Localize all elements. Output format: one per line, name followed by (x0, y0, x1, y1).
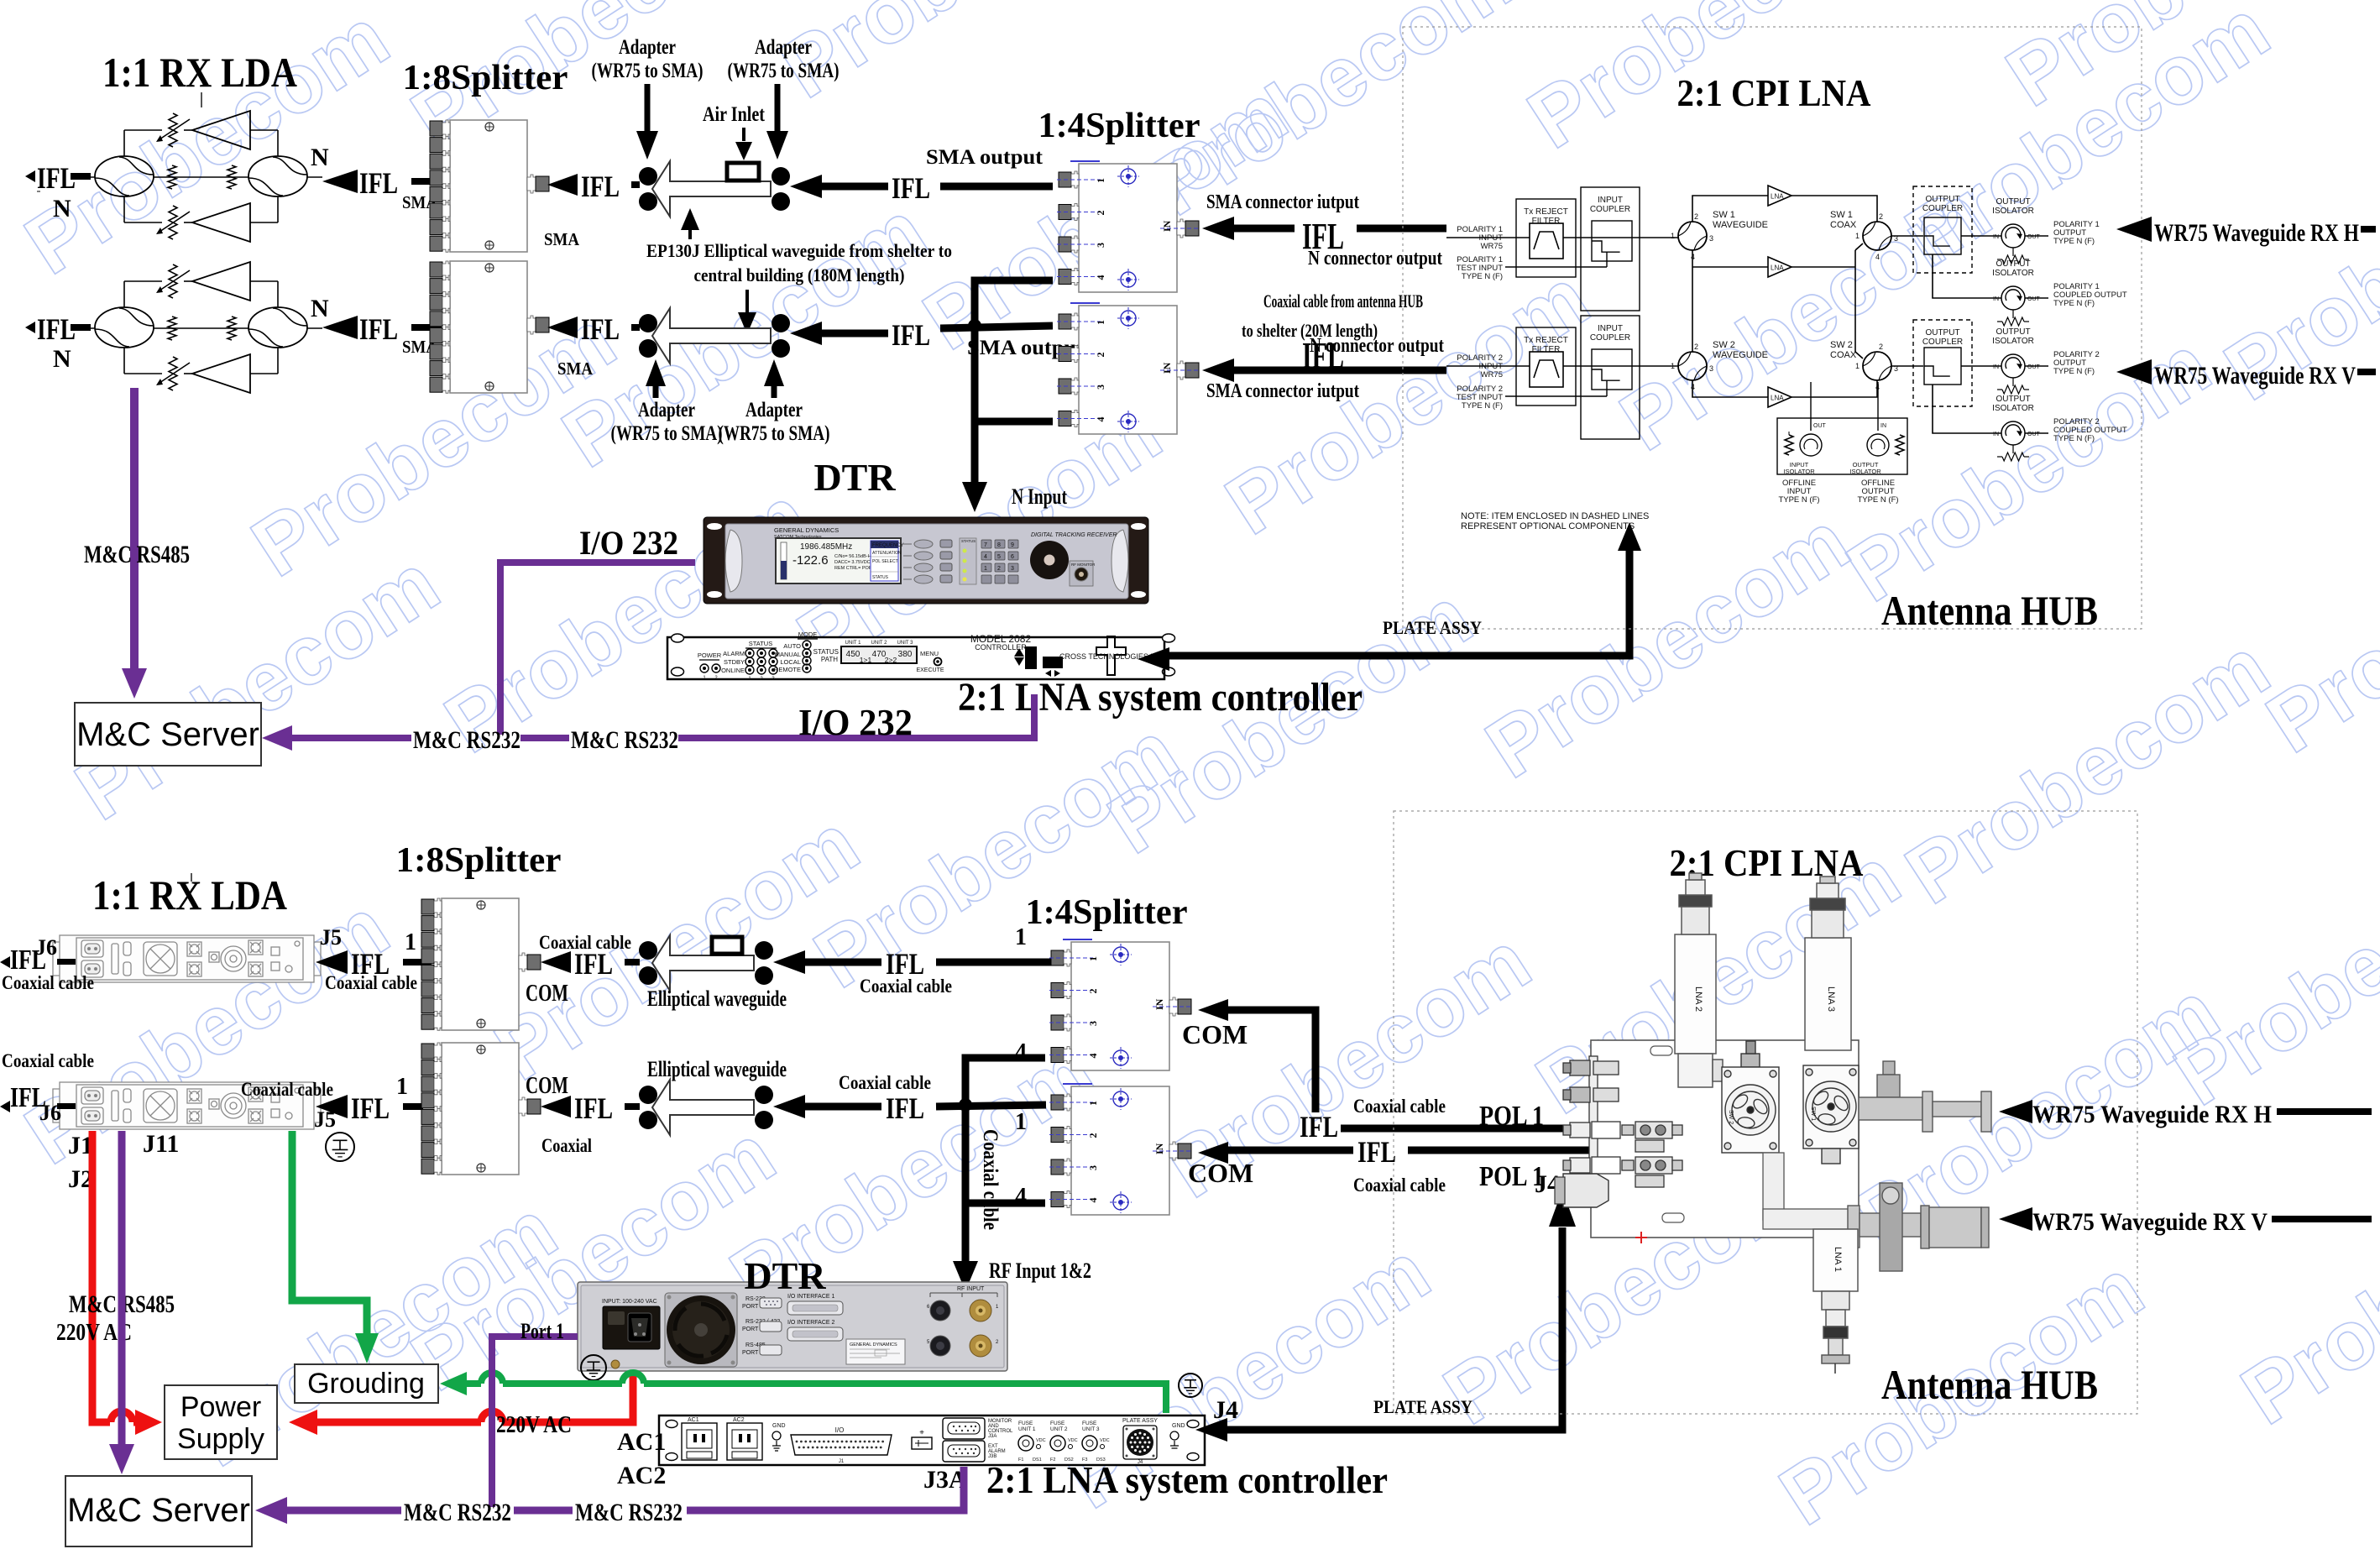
svg-text:4: 4 (984, 554, 987, 560)
svg-text:ONLINE: ONLINE (721, 667, 745, 674)
svg-text:ISOLATOR: ISOLATOR (1992, 269, 2034, 278)
svg-text:1:8Splitter: 1:8Splitter (396, 841, 562, 880)
svg-text:Coaxial cable: Coaxial cable (2, 1050, 94, 1071)
svg-text:M&C Server: M&C Server (67, 1492, 250, 1529)
svg-text:Coaxial cable: Coaxial cable (839, 1072, 931, 1093)
wire IFL into bottom splitter1 right port (541, 951, 571, 973)
wire SW1coax to output coupler1 (1891, 235, 1923, 237)
svg-text:MANUAL: MANUAL (775, 651, 801, 658)
svg-text:M&C RS232: M&C RS232 (575, 1499, 683, 1526)
LNA 3 cylinder (1805, 877, 1851, 1050)
svg-text:WR75 Waveguide RX H: WR75 Waveguide RX H (2032, 1101, 2272, 1128)
svg-text:TYPE N (F): TYPE N (F) (2053, 299, 2095, 308)
svg-text:PLATE ASSY: PLATE ASSY (1122, 1418, 1158, 1424)
svg-text:1: 1 (405, 929, 416, 955)
svg-text:WR75 Waveguide RX V: WR75 Waveguide RX V (2154, 362, 2356, 390)
svg-text:7: 7 (984, 542, 987, 548)
svg-text:1: 1 (1855, 362, 1860, 370)
wire splitter2 port4 to bus (975, 418, 1053, 426)
svg-text:UNIT 3: UNIT 3 (1082, 1426, 1100, 1432)
svg-text:ALARM: ALARM (723, 650, 745, 657)
2:1 LNA system controller front panel (667, 631, 1175, 682)
svg-text:SW 2: SW 2 (1713, 340, 1735, 350)
wire LNA2 out to SW1coax/SW2coax (1792, 266, 1855, 268)
svg-text:SW 1: SW 1 (1830, 210, 1853, 220)
svg-text:IFL: IFL (1300, 1110, 1338, 1143)
offline input/output isolator box (1777, 418, 1907, 474)
air inlet square bottom (712, 937, 742, 954)
svg-text:VDC: VDC (1100, 1438, 1110, 1443)
switch SW1 assembly (1803, 1065, 1859, 1164)
wire IFL into splitter2 IN (from CPI LNA) (1202, 358, 1234, 382)
svg-text:COAX: COAX (1830, 350, 1857, 360)
svg-text:WR75: WR75 (1481, 370, 1503, 379)
svg-text:RF INPUT: RF INPUT (957, 1286, 985, 1292)
svg-text:POL SELECT: POL SELECT (872, 559, 898, 564)
svg-text:FUSE: FUSE (1050, 1421, 1065, 1426)
output isolator 1 (2001, 224, 2025, 248)
svg-text:IFL: IFL (1357, 1135, 1396, 1169)
svg-text:OUTPUT: OUTPUT (1996, 197, 2030, 207)
svg-text:Adapter: Adapter (755, 36, 812, 59)
svg-text:3: 3 (1709, 364, 1713, 373)
svg-text:LOCAL: LOCAL (780, 658, 801, 666)
svg-text:1: 1 (984, 566, 987, 572)
svg-text:Coaxial cable: Coaxial cable (1353, 1175, 1446, 1196)
svg-text:COUPLER: COUPLER (1922, 338, 1963, 347)
output isolator 2 (coupled) (2001, 286, 2025, 310)
svg-text:N Input: N Input (1012, 484, 1067, 509)
svg-text:STATUS: STATUS (749, 640, 772, 647)
svg-text:2:1 LNA system controller: 2:1 LNA system controller (986, 1458, 1388, 1501)
junction dot at bus x row V (968, 319, 981, 332)
wire WR75 Waveguide RX V (bottom) (1999, 1207, 2032, 1231)
svg-text:WR75 Waveguide RX H: WR75 Waveguide RX H (2154, 219, 2359, 247)
wire polarity2 main line (1446, 365, 1679, 367)
wire IFL waveguide1 to 1:4 splitter1 (bottom) (773, 950, 805, 974)
LNA 3 amplifier (1768, 387, 1792, 407)
svg-text:IFL: IFL (359, 312, 398, 346)
svg-text:1: 1 (1015, 924, 1027, 950)
svg-text:Tx REJECT: Tx REJECT (1524, 336, 1568, 345)
wire coupled output 2 (1933, 385, 2001, 433)
svg-text:CONTROLLER: CONTROLLER (975, 643, 1027, 652)
svg-text:OUT: OUT (2027, 432, 2041, 437)
svg-text:ISOLATOR: ISOLATOR (1783, 468, 1815, 475)
elliptical waveguide (bottom row 2) (639, 1086, 657, 1104)
svg-text:GND: GND (1172, 1423, 1185, 1429)
svg-text:IFL: IFL (37, 161, 76, 195)
svg-text:IFL: IFL (37, 312, 76, 346)
svg-text:Supply: Supply (177, 1423, 264, 1455)
svg-text:INPUT: INPUT (1598, 324, 1623, 333)
svg-text:(WR75 to SMA): (WR75 to SMA) (719, 422, 830, 445)
svg-text:SW 1: SW 1 (1713, 210, 1735, 220)
wire IFL into bottom splitter2 right port (541, 1096, 571, 1117)
svg-text:Adapter: Adapter (745, 399, 803, 421)
svg-text:380: 380 (898, 650, 913, 659)
svg-text:2: 2 (997, 566, 1001, 572)
svg-text:MENU: MENU (920, 650, 939, 657)
svg-text:⎈: ⎈ (919, 1430, 924, 1436)
svg-text:1: 1 (1855, 232, 1860, 240)
svg-text:Tx REJECT: Tx REJECT (1524, 207, 1568, 217)
svg-text:Antenna HUB: Antenna HUB (1881, 587, 2098, 634)
wire COM1: splitter1 IN to CPI (bottom) (1198, 999, 1228, 1021)
svg-text:Coaxial cable: Coaxial cable (860, 976, 952, 997)
1:4 splitter unit 2 (top half) (1079, 306, 1177, 434)
J4 connector on plate (1563, 1174, 1608, 1207)
vertical duct SW2 to RX V arm (1763, 1153, 1860, 1229)
svg-text:OUTPUT: OUTPUT (1996, 395, 2030, 404)
svg-text:UNIT 2: UNIT 2 (871, 641, 888, 646)
svg-text:OUT: OUT (1813, 423, 1827, 429)
svg-text:DIGITAL TRACKING RECEIVER: DIGITAL TRACKING RECEIVER (1031, 532, 1117, 538)
svg-text:3: 3 (1709, 234, 1713, 243)
svg-text:1: 1 (1671, 362, 1675, 370)
svg-text:N: N (311, 295, 329, 322)
svg-text:1: 1 (396, 1074, 408, 1100)
svg-text:Adapter: Adapter (638, 399, 695, 421)
svg-text:4: 4 (1095, 275, 1106, 280)
svg-text:I/O INTERFACE 2: I/O INTERFACE 2 (787, 1320, 835, 1326)
svg-text:LNA 3: LNA 3 (1826, 986, 1836, 1012)
svg-text:J5: J5 (320, 925, 342, 950)
svg-text:1986.485MHz: 1986.485MHz (800, 542, 852, 552)
junction dot coax bus row2 (959, 1098, 972, 1112)
svg-text:IFL: IFL (892, 171, 930, 205)
svg-text:3: 3 (1087, 1021, 1099, 1026)
LNA plate assembly (1591, 1040, 1859, 1238)
LNA 1 cylinder (1813, 1229, 1858, 1374)
wire splitter1 port4 to N-input bus (975, 280, 1053, 487)
svg-text:M&C RS232: M&C RS232 (413, 726, 520, 754)
svg-text:SW 2: SW 2 (1830, 340, 1853, 350)
svg-text:N: N (53, 195, 71, 222)
DTR rear panel (578, 1282, 1007, 1371)
left edge connectors of plate (1563, 1056, 1620, 1191)
svg-text:RF Input 1&2: RF Input 1&2 (989, 1259, 1091, 1283)
svg-text:Coaxial cable: Coaxial cable (241, 1079, 333, 1100)
svg-text:J11: J11 (143, 1130, 179, 1158)
svg-text:TYPE N (F): TYPE N (F) (2053, 237, 2095, 246)
IFL port left (schematic H) (25, 170, 35, 182)
svg-text:INPUT: 100-240 VAC: INPUT: 100-240 VAC (602, 1299, 657, 1305)
svg-text:SMA connector iutput: SMA connector iutput (1206, 380, 1359, 402)
wire bottom splitter1 port4 to coax bus (965, 1058, 1045, 1264)
wire SW2wg to LNA3 to SW2coax (1692, 380, 1768, 397)
svg-text:REPRESENT OPTIONAL COMPONENTS: REPRESENT OPTIONAL COMPONENTS (1461, 521, 1635, 531)
wire IFL unit2 to splitter2 (bottom) (316, 1095, 348, 1118)
svg-text:GENERAL DYNAMICS: GENERAL DYNAMICS (774, 526, 839, 534)
svg-text:AC2: AC2 (617, 1462, 666, 1489)
1:8 splitter unit 1 (bottom) (442, 898, 519, 1030)
IFL port left (schematic V) (25, 322, 35, 333)
svg-text:(WR75 to SMA): (WR75 to SMA) (611, 422, 723, 445)
svg-text:Antenna HUB: Antenna HUB (1881, 1361, 2098, 1408)
svg-text:PATH: PATH (821, 656, 838, 663)
svg-text:Elliptical waveguide: Elliptical waveguide (647, 1057, 787, 1081)
wire PLATE ASSY to controller (top half) (1138, 647, 1169, 671)
switch SW2 waveguide (1678, 352, 1707, 380)
1:4 splitter unit 2 (bottom) (1071, 1086, 1169, 1215)
svg-text:IFL: IFL (351, 1091, 390, 1125)
wire IFL unit1 to splitter1 (bottom) (316, 950, 348, 974)
svg-text:IN: IN (1993, 234, 1999, 240)
svg-text:N: N (53, 345, 71, 373)
svg-text:SMA: SMA (557, 358, 594, 379)
svg-text:4: 4 (1875, 253, 1880, 261)
svg-text:NOTE: ITEM ENCLOSED IN DASHED: NOTE: ITEM ENCLOSED IN DASHED LINES (1461, 511, 1649, 521)
svg-text:LNA 1: LNA 1 (1833, 1247, 1843, 1272)
svg-text:2: 2 (1087, 1133, 1099, 1138)
leader arrow adapter2 (775, 84, 781, 134)
svg-text:M&C Server: M&C Server (76, 716, 259, 753)
wire IFL from LDA V to splitter2 (322, 316, 358, 339)
svg-text:INPUT: INPUT (1598, 196, 1623, 205)
1:1 RX LDA redundancy switch schematic (path V) (80, 262, 322, 393)
Grounding box (295, 1364, 438, 1403)
leader arrow adapter1 (645, 84, 651, 134)
svg-text:3: 3 (1087, 1165, 1099, 1170)
svg-text:2:1 CPI LNA: 2:1 CPI LNA (1677, 71, 1871, 114)
svg-text:COM: COM (526, 980, 568, 1007)
svg-text:8: 8 (997, 542, 1001, 548)
wire IFL waveguide2 to 1:4 splitter2 (bottom) (773, 1095, 805, 1118)
offline output isolator (1867, 434, 1889, 456)
LNA 2 cylinder (1675, 873, 1723, 1087)
wire J4 plate assy (bottom) (1195, 1418, 1227, 1442)
wire WR75 Waveguide RX H (top) (2116, 217, 2152, 242)
wire SW1wg to LNA1 to SW1coax (1692, 196, 1768, 222)
svg-text:POL 1: POL 1 (1479, 1101, 1544, 1132)
svg-text:I/O 232: I/O 232 (579, 524, 678, 562)
svg-text:IFL: IFL (886, 1091, 924, 1125)
svg-text:J6: J6 (39, 1101, 61, 1125)
svg-text:Coaxial cable from antenna HUB: Coaxial cable from antenna HUB (1263, 290, 1423, 311)
Power Supply box (165, 1385, 277, 1459)
ground symbol DTR rear (581, 1355, 606, 1380)
wire 220V AC from DTR (red) (289, 1410, 317, 1435)
svg-text:EP130J Elliptical waveguide fr: EP130J Elliptical waveguide from shelter… (646, 240, 952, 261)
svg-text:VDC: VDC (1036, 1438, 1046, 1443)
svg-text:450: 450 (846, 650, 860, 659)
svg-text:3: 3 (1095, 243, 1106, 248)
svg-text:Power: Power (180, 1391, 261, 1423)
svg-text:J1: J1 (839, 1459, 845, 1464)
svg-text:GENERAL DYNAMICS: GENERAL DYNAMICS (850, 1342, 897, 1348)
svg-text:REMOTE: REMOTE (774, 666, 801, 673)
svg-text:2: 2 (1087, 989, 1099, 994)
ground symbol near controller (1179, 1374, 1202, 1397)
waveguide arm RX H (1859, 1061, 1991, 1132)
1:8 splitter unit 2 (bottom) (442, 1043, 519, 1175)
svg-text:FUSE: FUSE (1018, 1421, 1033, 1426)
Antenna HUB dashed boundary (top) (1403, 27, 2142, 629)
svg-text:C/No= 56.15dB-Hz: C/No= 56.15dB-Hz (834, 554, 874, 559)
wire Port 1 (purple bottom) (492, 1337, 578, 1507)
svg-text:IFL: IFL (1302, 335, 1344, 376)
output isolator 3 (2001, 354, 2025, 378)
svg-text:UNIT 3: UNIT 3 (897, 641, 914, 646)
svg-text:WR75: WR75 (1481, 242, 1503, 251)
offline input isolator (1800, 434, 1822, 456)
svg-text:(WR75 to SMA): (WR75 to SMA) (728, 60, 840, 82)
waveguide arm RX V (1848, 1183, 1989, 1271)
svg-text:LNA: LNA (1771, 264, 1784, 272)
svg-text:AC2: AC2 (733, 1417, 745, 1423)
svg-text:UNIT 1: UNIT 1 (1018, 1426, 1036, 1432)
svg-text:OUTPUT: OUTPUT (1925, 195, 1959, 204)
wire I/O 232 DTR to bus (purple) (500, 563, 695, 735)
output isolator 4 (coupled) (2001, 421, 2025, 445)
svg-text:1: 1 (1015, 1109, 1027, 1135)
svg-text:Grouding: Grouding (307, 1368, 425, 1400)
svg-text:2>2: 2>2 (885, 656, 897, 664)
svg-text:3: 3 (1011, 566, 1014, 572)
svg-text:2: 2 (1879, 343, 1883, 351)
svg-text:2: 2 (1095, 353, 1106, 358)
Antenna HUB dashed boundary (bottom) (1394, 811, 2137, 1414)
svg-text:ATTENUATION: ATTENUATION (872, 551, 902, 556)
svg-text:SW 2: SW 2 (1728, 1110, 1734, 1124)
wire M&C RS232 (purple bottom) (255, 1497, 287, 1524)
svg-text:WAVEGUIDE: WAVEGUIDE (1713, 350, 1768, 360)
LNA 1 amplifier (1768, 186, 1792, 206)
svg-text:IFL: IFL (574, 1091, 613, 1125)
1:1 RX LDA redundancy switch schematic (path H) (80, 111, 322, 242)
svg-text:1:1 RX LDA: 1:1 RX LDA (92, 871, 287, 918)
1:4 splitter unit 1 (top half) (1079, 164, 1177, 292)
wire SW2coax to output coupler2 (1891, 365, 1923, 367)
svg-text:I/O: I/O (835, 1426, 845, 1434)
wire WR75 Waveguide RX H (bottom) (1999, 1100, 2032, 1123)
svg-text:1: 1 (1095, 178, 1106, 183)
wire polarity1 main line (1446, 237, 1679, 238)
svg-text:-122.6: -122.6 (792, 553, 829, 568)
svg-text:STDBY: STDBY (724, 658, 745, 666)
svg-text:Coaxial cable: Coaxial cable (325, 972, 417, 993)
svg-text:UNIT 2: UNIT 2 (1050, 1426, 1068, 1432)
elliptical waveguide (row V) (639, 314, 657, 332)
1:4 splitter unit 1 (bottom) (1071, 942, 1169, 1070)
svg-text:STATUS: STATUS (872, 575, 889, 580)
svg-text:central building (180M length): central building (180M length) (694, 264, 905, 285)
svg-text:TYPE N (F): TYPE N (F) (2053, 367, 2095, 376)
svg-text:WAVEGUIDE: WAVEGUIDE (1713, 220, 1768, 230)
svg-text:TYPE N (F): TYPE N (F) (1778, 495, 1819, 505)
svg-text:LNA 2: LNA 2 (1693, 986, 1703, 1012)
wire IFL from LDA H to splitter1 (322, 170, 358, 193)
wire SW1wg bottom to LNA2 and SW2wg (1692, 250, 1693, 352)
svg-text:IN: IN (1993, 364, 1999, 370)
svg-text:Coaxial cable: Coaxial cable (539, 932, 631, 953)
svg-text:IFL: IFL (359, 166, 398, 200)
svg-text:1: 1 (1087, 1101, 1099, 1106)
svg-text:ISOLATOR: ISOLATOR (1992, 337, 2034, 346)
svg-text:COUPLER: COUPLER (1590, 205, 1630, 214)
svg-text:TYPE N (F): TYPE N (F) (2053, 434, 2095, 443)
Tx reject filter 1 (1516, 199, 1576, 277)
IFL port left unit2 (0, 1101, 10, 1112)
output coupler 1 (1913, 186, 1972, 273)
wire grounding green from LDA2 (292, 1131, 367, 1340)
svg-text:1:4Splitter: 1:4Splitter (1026, 893, 1188, 932)
svg-text:DTR: DTR (744, 1254, 826, 1297)
svg-text:4: 4 (1095, 417, 1106, 422)
svg-text:STATUS: STATUS (961, 539, 976, 543)
svg-text:EXECUTE: EXECUTE (916, 667, 944, 673)
svg-text:POWER: POWER (698, 652, 722, 659)
svg-text:IFL: IFL (892, 318, 930, 352)
svg-text:COAX: COAX (1830, 220, 1857, 230)
svg-text:ISOLATOR: ISOLATOR (1992, 404, 2034, 413)
IFL port left unit1 (0, 956, 10, 968)
svg-text:DACC= 3.75VDC: DACC= 3.75VDC (834, 560, 871, 565)
svg-text:M&C RS232: M&C RS232 (404, 1499, 511, 1526)
wire coupled output 1 (1933, 254, 2001, 298)
svg-text:ISOLATOR: ISOLATOR (1849, 468, 1881, 475)
wire M&C RS485 (purple, top) (130, 388, 139, 672)
dual fuse blocks (1622, 1122, 1682, 1187)
svg-text:SMA connector iutput: SMA connector iutput (1206, 191, 1359, 213)
svg-text:M&C RS232: M&C RS232 (571, 726, 678, 754)
wire 220V AC from J1/J2 (red) (92, 1131, 110, 1422)
svg-text:FUSE: FUSE (1082, 1421, 1097, 1426)
wire IFL into splitter2 right port (547, 317, 578, 338)
svg-text:2: 2 (1694, 212, 1698, 221)
elliptical waveguide (top row H) (639, 167, 657, 186)
svg-text:1:1 RX LDA: 1:1 RX LDA (102, 49, 297, 96)
1:1 RX LDA rear unit 1 (bottom) (53, 935, 321, 982)
svg-text:COM: COM (526, 1072, 568, 1099)
svg-text:LNA: LNA (1771, 395, 1784, 402)
svg-text:TYPE N (F): TYPE N (F) (1462, 401, 1503, 411)
svg-text:Coaxial: Coaxial (541, 1135, 592, 1156)
svg-text:4: 4 (1087, 1054, 1099, 1059)
output coupler 2 (1913, 320, 1972, 406)
wire grounding green bus (440, 1372, 467, 1395)
svg-text:J3A: J3A (988, 1434, 996, 1439)
svg-text:220V AC: 220V AC (496, 1411, 572, 1438)
svg-text:STATUS: STATUS (813, 648, 839, 656)
svg-text:1: 1 (1671, 232, 1675, 240)
svg-text:AUTO: AUTO (783, 642, 801, 650)
svg-text:OUT: OUT (2027, 234, 2041, 240)
svg-text:Elliptical waveguide: Elliptical waveguide (647, 986, 787, 1011)
wire IFL into splitter1 IN (from CPI LNA) (1202, 217, 1234, 240)
svg-text:Coaxial cable: Coaxial cable (1353, 1096, 1446, 1117)
svg-text:IFL: IFL (581, 170, 620, 203)
svg-text:OUTPUT: OUTPUT (1996, 327, 2030, 337)
svg-text:IN: IN (1993, 432, 1999, 437)
svg-text:RF MONITOR: RF MONITOR (1071, 563, 1096, 567)
elliptical waveguide (bottom row 1) (639, 941, 657, 960)
svg-text:IN: IN (1153, 998, 1165, 1010)
wire IFL waveguide to 1:4 splitter2 (row V) (790, 322, 822, 345)
svg-text:Adapter: Adapter (619, 36, 676, 59)
svg-text:AC1: AC1 (617, 1428, 666, 1456)
input coupler 1 (1581, 187, 1640, 311)
svg-text:SW 1: SW 1 (1810, 1107, 1816, 1121)
svg-text:COUPLER: COUPLER (1590, 333, 1630, 343)
svg-text:OUTPUT: OUTPUT (1925, 328, 1959, 338)
svg-text:VDC: VDC (1068, 1438, 1078, 1443)
svg-text:PLATE ASSY: PLATE ASSY (1373, 1396, 1472, 1417)
M&C Server box (top) (75, 703, 261, 766)
wire M&C RS485/J11 (purple bottom) (118, 1131, 126, 1446)
svg-text:1: 1 (1095, 320, 1106, 325)
